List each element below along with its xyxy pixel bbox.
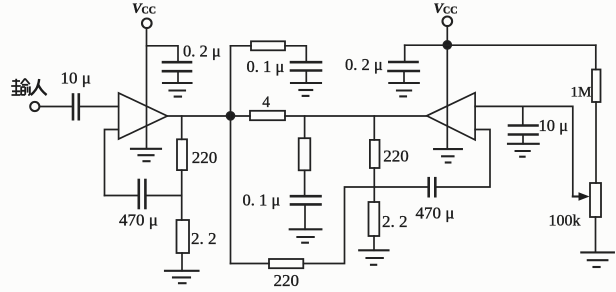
svg-text:220: 220 [383,147,409,166]
resistor R5 [299,138,311,170]
wire top row to C7 [404,45,406,62]
ground below C4 [291,83,321,96]
svg-text:100k: 100k [549,213,581,230]
resistor R8 2.2 [369,202,380,236]
svg-text:10 μ: 10 μ [539,116,569,135]
svg-text:0. 1 μ: 0. 1 μ [243,191,281,210]
label input 输入 [11,79,46,95]
wire R4 to U2 output [285,115,427,117]
ground below C5 [290,229,322,242]
ground below U1 [131,149,161,161]
capacitor C4 0.1u plates [291,62,321,70]
wire Vcc2 down through U2 to ground [446,26,448,149]
svg-text:0. 1 μ: 0. 1 μ [247,57,285,76]
capacitor C 10u plates [73,95,79,120]
capacitor C8 10u plates [509,126,538,135]
svg-text:10 μ: 10 μ [61,69,91,88]
wire R9 to RP1 [595,102,597,183]
wire C4 to ground [305,71,307,84]
wire R7 to node B [373,168,375,202]
resistor R6 220 bottom [269,259,303,268]
wire Vcc1 down through U1 to ground [146,28,148,148]
resistor R1 220 [177,139,187,170]
svg-text:220: 220 [192,148,218,167]
svg-text:220: 220 [274,271,300,290]
svg-text:4: 4 [262,94,270,111]
resistor R9 1M [592,70,601,103]
wire C6 to U2 inverting input [436,130,490,188]
resistor R7 220 [370,140,380,168]
wire C2 to ground [177,71,179,83]
capacitor C6 470u plates [429,178,436,196]
capacitor C5 0.1u plates [291,196,321,204]
svg-text:0. 2 μ: 0. 2 μ [183,42,221,61]
wire R5 to C5 [304,170,306,196]
wire U2 non-inverting input to wiper [475,106,573,196]
wiper arrow of RP1 [573,192,590,201]
svg-text:CC: CC [142,6,156,17]
wire C8 to ground [522,135,524,144]
ground below C8 [508,144,539,157]
wire R7 stub from output row [373,116,375,140]
node A junction dot [227,112,235,120]
wire R1 stub from output [181,116,183,139]
wire C7 to ground [403,71,405,83]
wire R2 to ground [181,253,183,271]
wire top row corner down to R9 [595,45,597,69]
capacitor C7 0.2u plates [389,62,419,71]
wire feedback row to C3 [105,195,138,197]
wire RP1 to ground [595,217,597,252]
wire bottom row left [231,263,270,265]
wire U1 output row [167,115,250,117]
wire C8 stub [522,106,524,125]
potentiometer RP1 100k body [590,183,601,217]
svg-text:2. 2: 2. 2 [382,212,408,231]
node Vcc2 terminal [443,17,453,27]
ground below C7 [389,83,419,96]
capacitor C2 0.2u plates [163,62,191,71]
wire bottom row right up to feedback node [303,187,374,264]
op-amp U2 [427,93,475,140]
svg-text:2. 2: 2. 2 [191,229,217,248]
wire node B to C6 [374,186,427,188]
node Vcc1 terminal [142,19,152,29]
wire C5 to ground [304,204,306,229]
svg-text:470 μ: 470 μ [416,204,455,223]
svg-text:470 μ: 470 μ [119,211,158,230]
wire R1 to R2 [181,170,183,220]
wire C3 to node R1/R2 [147,195,182,197]
ground below R8 [359,250,388,264]
wire C1 to amp1 input [80,106,118,108]
resistor R2 2.2 [177,220,190,253]
node input terminal [30,102,39,111]
wire input to C1 [40,106,72,108]
resistor R3 [251,41,285,50]
resistor R4 4 (load) [250,111,285,120]
wire Vcc1 tee to C2 [147,46,179,62]
ground below C2 [163,83,192,97]
wire R8 to ground [373,236,375,250]
wire R5 stub down [304,116,306,138]
svg-text:CC: CC [443,6,457,17]
ground below U2 [434,149,462,162]
ground below R2 [165,271,199,283]
capacitor C3 470u plates [139,180,146,208]
wire rail to R3 [231,45,252,47]
wire R3 to C4 [285,46,306,62]
node Vcc2 junction dot [443,41,451,49]
op-amp U1 [119,93,168,139]
wire Vcc2 top row [405,44,596,46]
wire U1 inverting input stub [105,130,119,196]
ground below RP1 [581,252,614,267]
svg-text:0. 2 μ: 0. 2 μ [345,55,383,74]
wire left rail [230,46,232,264]
svg-text:1M: 1M [571,85,592,101]
